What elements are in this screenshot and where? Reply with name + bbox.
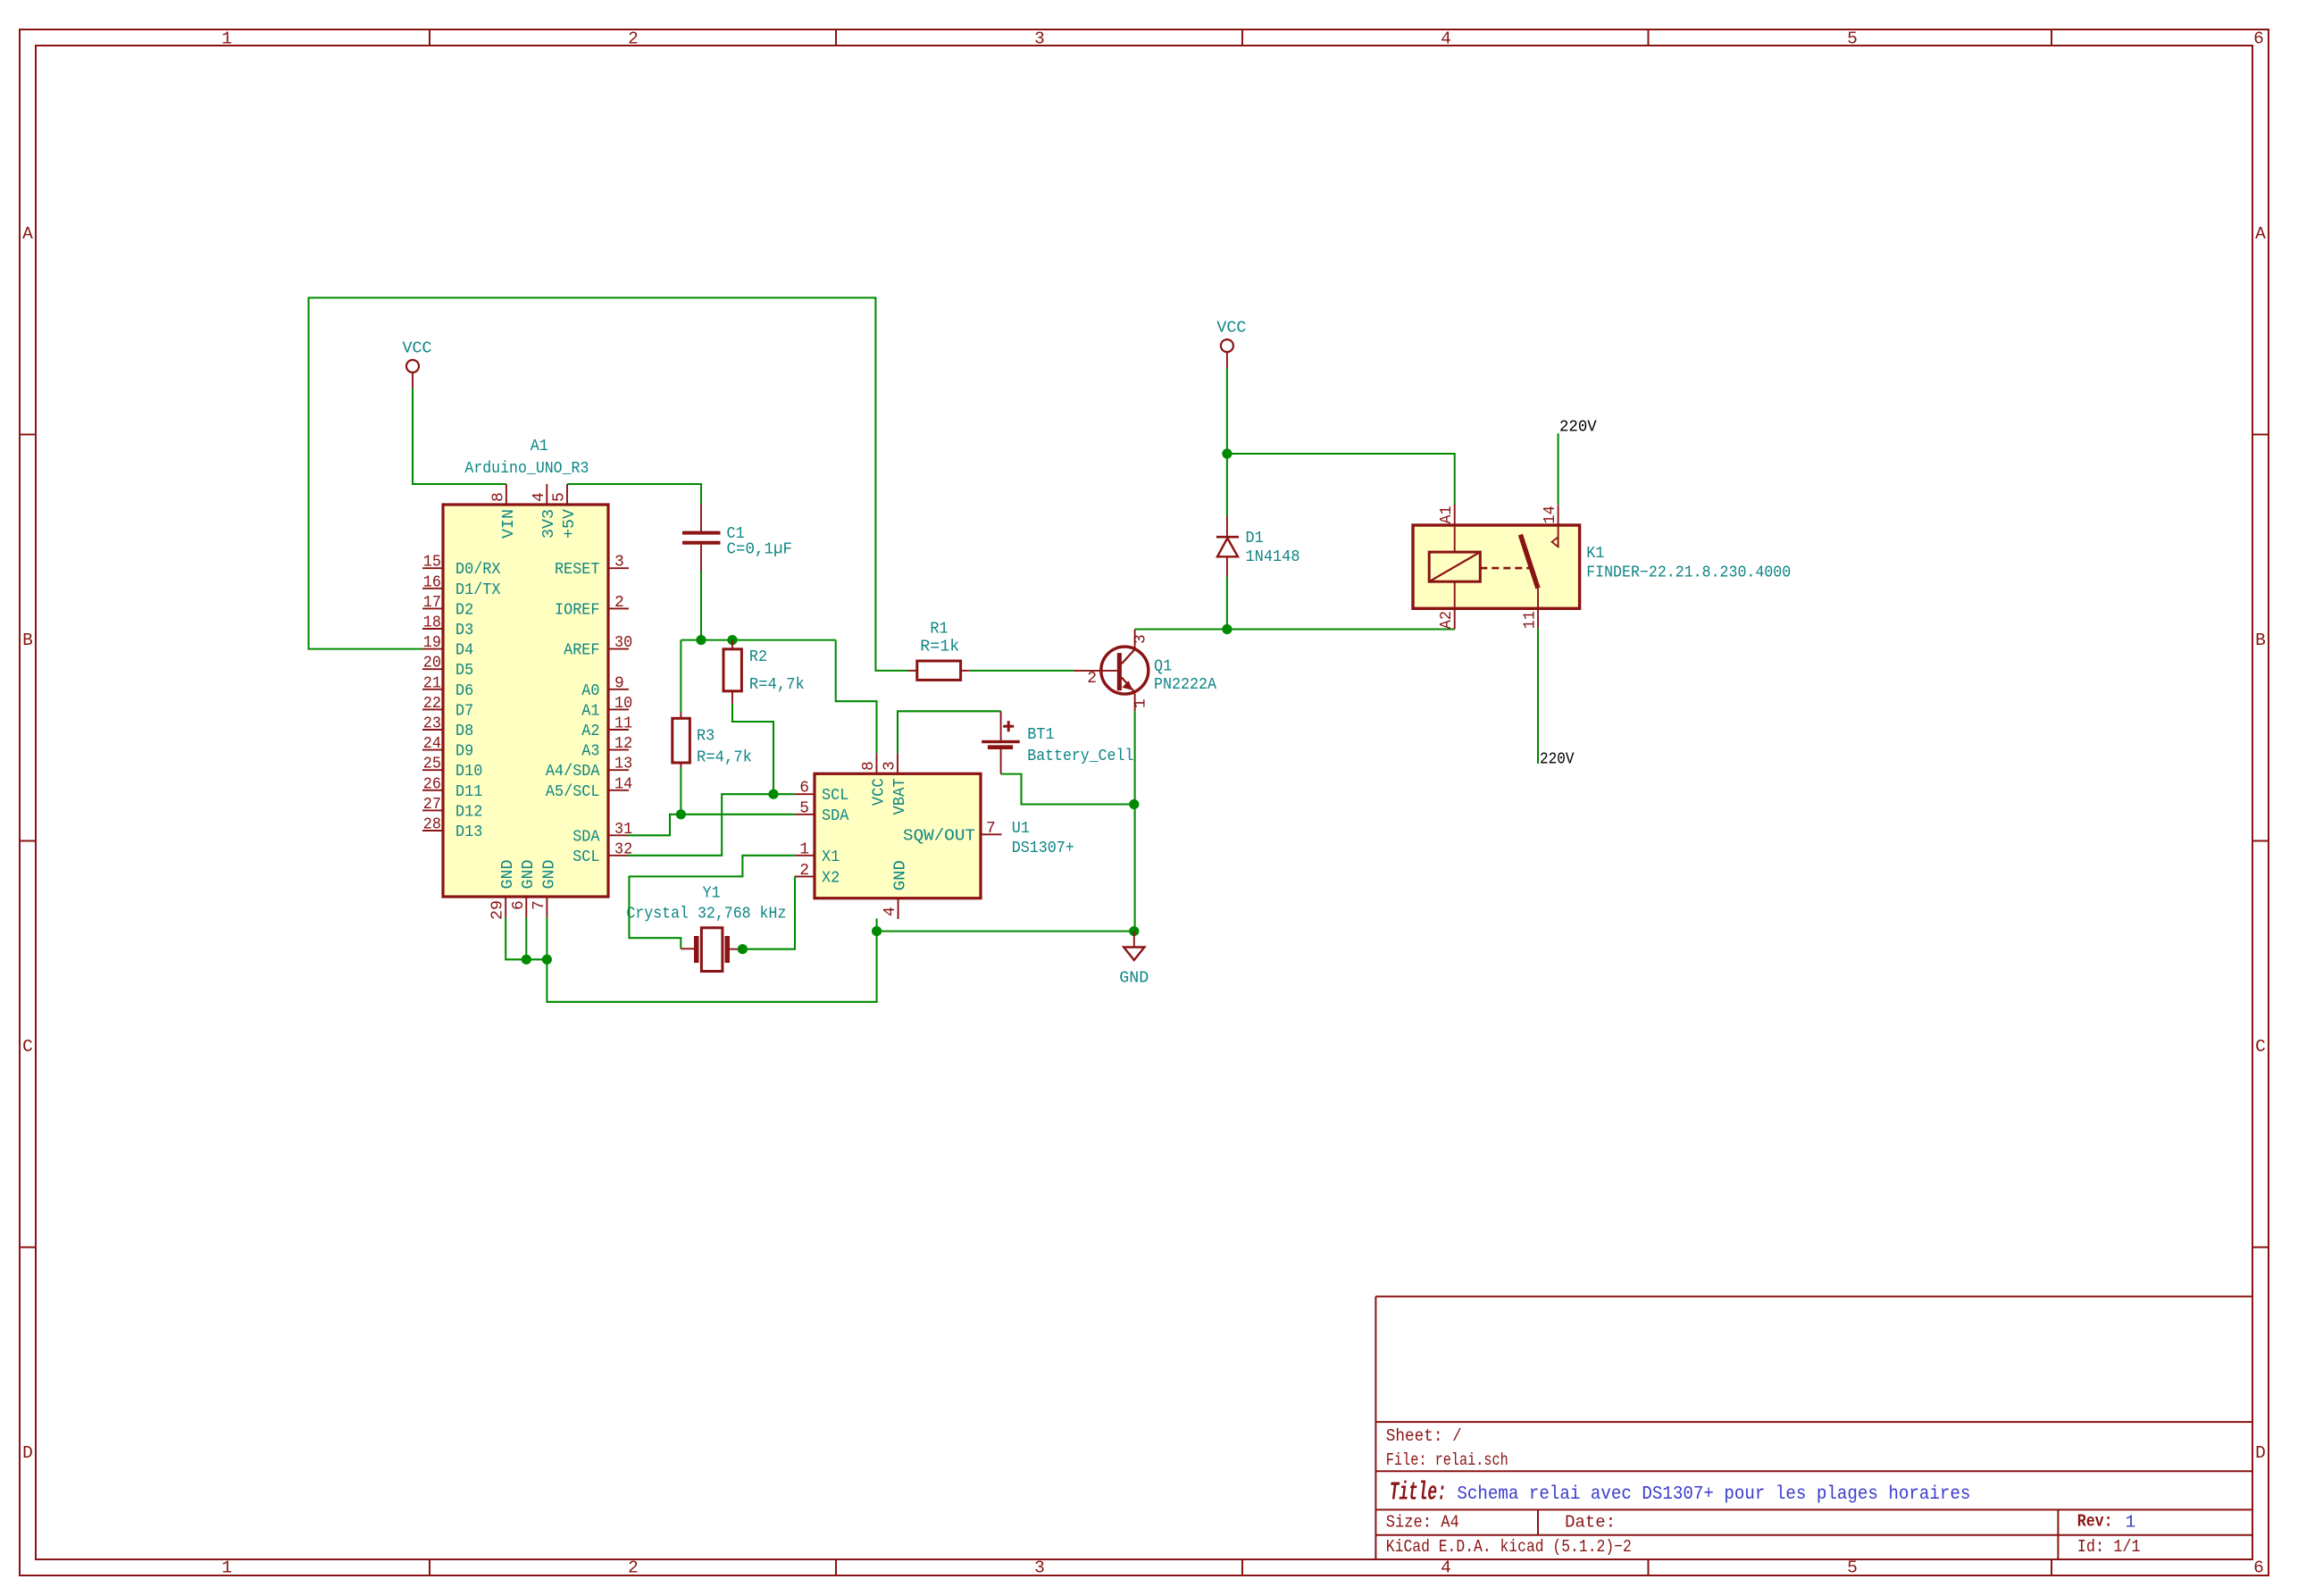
resistor R1 bbox=[908, 621, 970, 681]
wire junction row to R3 bbox=[680, 640, 681, 712]
wire U1 X2 to crystal right bbox=[742, 876, 795, 948]
svg-text:30: 30 bbox=[614, 634, 632, 652]
title block bbox=[1375, 1297, 2252, 1559]
junction SCL node bbox=[768, 790, 778, 799]
svg-text:18: 18 bbox=[423, 614, 441, 632]
svg-text:K1: K1 bbox=[1586, 545, 1604, 563]
relay K1 dashed actuator link bbox=[1480, 567, 1529, 570]
svg-text:D3: D3 bbox=[455, 622, 473, 639]
svg-text:2: 2 bbox=[1087, 670, 1097, 688]
junction C1 row bbox=[696, 635, 706, 645]
svg-text:14: 14 bbox=[614, 775, 632, 793]
svg-text:GND: GND bbox=[520, 860, 538, 890]
arduino A1 reference labels bbox=[464, 438, 589, 478]
svg-text:VCC: VCC bbox=[1216, 320, 1246, 338]
svg-text:R1: R1 bbox=[930, 621, 948, 639]
wire D1 to collector row bbox=[1226, 577, 1228, 630]
arduino right pins bbox=[546, 554, 632, 866]
svg-text:4: 4 bbox=[882, 907, 899, 916]
svg-text:D11: D11 bbox=[455, 783, 482, 801]
arduino bottom pins GND x3 bbox=[489, 860, 559, 921]
svg-text:8: 8 bbox=[860, 761, 878, 771]
svg-text:5: 5 bbox=[1847, 29, 1858, 49]
svg-text:VBAT: VBAT bbox=[891, 778, 909, 815]
svg-text:X2: X2 bbox=[822, 869, 840, 887]
wire C1 to pullup junction row bbox=[700, 571, 702, 640]
svg-text:R3: R3 bbox=[697, 728, 714, 746]
svg-text:6: 6 bbox=[510, 900, 528, 910]
svg-text:Crystal 32,768 kHz: Crystal 32,768 kHz bbox=[626, 906, 786, 923]
svg-text:4: 4 bbox=[531, 492, 548, 502]
svg-text:5: 5 bbox=[799, 799, 809, 817]
svg-text:220V: 220V bbox=[1540, 751, 1575, 769]
svg-text:3: 3 bbox=[1132, 634, 1150, 644]
svg-text:D9: D9 bbox=[455, 743, 473, 761]
svg-text:17: 17 bbox=[423, 594, 441, 612]
junction U1 GND node bbox=[872, 926, 882, 936]
svg-text:B: B bbox=[2255, 631, 2266, 650]
svg-text:D2: D2 bbox=[455, 601, 473, 619]
svg-text:GND: GND bbox=[540, 860, 558, 890]
IC U1 DS1307 body bbox=[815, 773, 981, 898]
svg-text:D5: D5 bbox=[455, 662, 473, 680]
svg-text:9: 9 bbox=[614, 674, 624, 692]
svg-text:C=0,1µF: C=0,1µF bbox=[727, 540, 793, 558]
svg-text:R=4,7k: R=4,7k bbox=[697, 749, 752, 767]
svg-text:Id: 1/1: Id: 1/1 bbox=[2077, 1537, 2141, 1557]
svg-text:File: relai.sch: File: relai.sch bbox=[1386, 1450, 1508, 1470]
svg-text:7: 7 bbox=[986, 820, 996, 838]
wire pullup junction row bbox=[681, 639, 835, 641]
svg-text:A2: A2 bbox=[1438, 611, 1456, 629]
svg-text:220V: 220V bbox=[1559, 418, 1597, 436]
wire R2 to SCL bbox=[732, 704, 773, 794]
svg-text:13: 13 bbox=[614, 756, 632, 773]
svg-text:1: 1 bbox=[221, 29, 232, 49]
svg-text:GND: GND bbox=[892, 860, 910, 890]
svg-text:D12: D12 bbox=[455, 803, 482, 821]
svg-text:SQW/OUT: SQW/OUT bbox=[903, 827, 975, 845]
junction crystal node bbox=[738, 944, 748, 954]
svg-text:Date:: Date: bbox=[1565, 1513, 1616, 1533]
svg-text:D0/RX: D0/RX bbox=[455, 561, 501, 579]
junction SDA node bbox=[676, 809, 686, 819]
svg-text:1N4148: 1N4148 bbox=[1246, 548, 1300, 566]
svg-text:R=1k: R=1k bbox=[920, 639, 959, 656]
svg-text:D: D bbox=[22, 1443, 33, 1463]
wire GND bus to U1 area bbox=[547, 919, 876, 1002]
wire +5V to C1 and AREF net bbox=[567, 484, 701, 505]
junction R2 row bbox=[727, 635, 737, 645]
svg-text:Arduino_UNO_R3: Arduino_UNO_R3 bbox=[464, 460, 589, 478]
svg-text:1: 1 bbox=[1132, 698, 1150, 708]
svg-text:21: 21 bbox=[423, 674, 441, 692]
U1 right pin SQW/OUT bbox=[903, 820, 1002, 846]
U1 top pins VCC VBAT bbox=[860, 754, 909, 815]
relay K1 reference labels bbox=[1586, 545, 1791, 581]
arduino top pins VIN 3V3 +5V bbox=[489, 484, 579, 539]
svg-text:A0: A0 bbox=[581, 682, 599, 700]
svg-text:1: 1 bbox=[2126, 1513, 2136, 1533]
svg-text:11: 11 bbox=[1522, 611, 1540, 629]
svg-text:6: 6 bbox=[2253, 1558, 2264, 1578]
wire VCC to D1/relay junction bbox=[1226, 368, 1228, 454]
svg-text:DS1307+: DS1307+ bbox=[1012, 840, 1074, 857]
svg-text:A1: A1 bbox=[531, 438, 548, 455]
svg-text:D7: D7 bbox=[455, 702, 473, 720]
svg-text:7: 7 bbox=[531, 900, 548, 910]
junction D1 collector node bbox=[1222, 624, 1232, 634]
diode D1 1N4148 bbox=[1216, 516, 1300, 577]
resistor R2 bbox=[723, 640, 805, 704]
wire VCC junction to relay A1 bbox=[1227, 454, 1455, 505]
svg-text:28: 28 bbox=[423, 816, 441, 834]
wire arduino SCL to DS1307 bbox=[627, 794, 795, 856]
svg-text:SDA: SDA bbox=[572, 828, 599, 846]
svg-text:11: 11 bbox=[614, 715, 632, 733]
wire VCC to VIN bbox=[413, 389, 506, 484]
svg-text:R2: R2 bbox=[749, 648, 767, 666]
wire 220V to relay pin 14 bbox=[1558, 433, 1559, 505]
wire VCC junction row to U1 VCC pin bbox=[836, 640, 877, 754]
svg-text:D13: D13 bbox=[455, 823, 482, 841]
svg-text:Sheet: /: Sheet: / bbox=[1386, 1426, 1462, 1446]
svg-text:KiCad E.D.A. kicad (5.1.2)−2: KiCad E.D.A. kicad (5.1.2)−2 bbox=[1386, 1537, 1632, 1557]
svg-text:U1: U1 bbox=[1012, 820, 1030, 838]
svg-text:20: 20 bbox=[423, 655, 441, 673]
svg-text:6: 6 bbox=[2253, 29, 2264, 49]
svg-text:GND: GND bbox=[1119, 970, 1149, 988]
svg-text:D4: D4 bbox=[455, 642, 473, 660]
U1 bottom pin GND bbox=[882, 860, 909, 919]
svg-text:PN2222A: PN2222A bbox=[1154, 676, 1216, 694]
svg-text:3: 3 bbox=[614, 554, 624, 572]
svg-text:2: 2 bbox=[628, 29, 639, 49]
wire collector row Q1 to relay A2 bbox=[1135, 628, 1455, 630]
svg-text:A3: A3 bbox=[581, 743, 599, 761]
U1 reference labels bbox=[1012, 820, 1074, 857]
svg-text:X1: X1 bbox=[822, 848, 840, 866]
svg-text:25: 25 bbox=[423, 756, 441, 773]
svg-text:8: 8 bbox=[489, 492, 507, 502]
svg-text:VCC: VCC bbox=[870, 778, 888, 806]
svg-text:6: 6 bbox=[799, 780, 809, 798]
svg-text:A2: A2 bbox=[581, 723, 599, 740]
svg-text:Title:: Title: bbox=[1390, 1478, 1447, 1508]
wire R1 to Q1 base bbox=[970, 670, 1074, 672]
wire Q1 emitter to GND bbox=[1134, 711, 1136, 932]
wire D4 to R1 loop bbox=[309, 297, 909, 671]
svg-text:GND: GND bbox=[499, 860, 517, 890]
svg-text:IOREF: IOREF bbox=[555, 601, 600, 619]
svg-text:C: C bbox=[22, 1037, 33, 1057]
svg-text:15: 15 bbox=[423, 554, 441, 572]
svg-text:3V3: 3V3 bbox=[540, 509, 558, 539]
transistor Q1 PN2222A bbox=[1074, 630, 1216, 712]
arduino left pins D0-D13 bbox=[422, 554, 501, 841]
relay K1 body bbox=[1413, 525, 1580, 608]
svg-text:D8: D8 bbox=[455, 723, 473, 740]
svg-text:VIN: VIN bbox=[500, 509, 518, 539]
svg-text:24: 24 bbox=[423, 735, 441, 753]
svg-text:FINDER−22.21.8.230.4000: FINDER−22.21.8.230.4000 bbox=[1586, 564, 1791, 582]
svg-text:23: 23 bbox=[423, 715, 441, 733]
svg-text:1: 1 bbox=[799, 840, 809, 858]
wire VCC junction to D1 bbox=[1226, 454, 1228, 516]
svg-text:D6: D6 bbox=[455, 682, 473, 700]
svg-text:Schema relai avec DS1307+ pour: Schema relai avec DS1307+ pour les plage… bbox=[1457, 1483, 1970, 1505]
svg-text:Y1: Y1 bbox=[703, 885, 721, 903]
svg-text:SDA: SDA bbox=[822, 807, 848, 825]
wire relay pin 11 to 220V bottom bbox=[1537, 629, 1539, 764]
svg-text:26: 26 bbox=[423, 775, 441, 793]
svg-text:1: 1 bbox=[221, 1558, 232, 1578]
svg-text:29: 29 bbox=[489, 900, 507, 920]
svg-text:RESET: RESET bbox=[555, 561, 600, 579]
junction GND symbol node bbox=[1129, 926, 1139, 936]
svg-text:19: 19 bbox=[423, 634, 441, 652]
frame row labels bbox=[22, 224, 2266, 1463]
svg-text:Rev:: Rev: bbox=[2077, 1512, 2113, 1532]
wire U1 VBAT to battery BT1 bbox=[898, 711, 1001, 753]
svg-text:3: 3 bbox=[1034, 29, 1045, 49]
svg-text:12: 12 bbox=[614, 735, 632, 753]
svg-text:BT1: BT1 bbox=[1027, 726, 1054, 744]
arduino A1 body bbox=[443, 505, 608, 897]
svg-text:A5/SCL: A5/SCL bbox=[546, 783, 600, 801]
junction battery GND node bbox=[1129, 799, 1139, 809]
svg-text:A: A bbox=[2255, 224, 2266, 244]
svg-text:27: 27 bbox=[423, 796, 441, 814]
svg-text:VCC: VCC bbox=[403, 340, 432, 358]
wire arduino SDA to DS1307 bbox=[627, 815, 795, 836]
svg-text:3: 3 bbox=[1034, 1558, 1045, 1578]
svg-text:D: D bbox=[2255, 1443, 2266, 1463]
svg-text:Battery_Cell: Battery_Cell bbox=[1027, 748, 1133, 765]
svg-text:5: 5 bbox=[1847, 1558, 1858, 1578]
wire U1 X1 to crystal left bbox=[629, 856, 794, 949]
svg-text:2: 2 bbox=[799, 862, 809, 880]
capacitor C1 bbox=[682, 505, 792, 571]
svg-text:D1: D1 bbox=[1246, 530, 1264, 547]
wire GND row to GND symbol bbox=[877, 931, 1134, 932]
svg-text:C: C bbox=[2255, 1037, 2266, 1057]
wire battery negative to GND net bbox=[1001, 774, 1134, 805]
power symbol VCC (left) bbox=[403, 340, 432, 389]
U1 left pins SCL SDA X1 X2 bbox=[795, 780, 849, 888]
svg-text:5: 5 bbox=[551, 492, 569, 502]
ground symbol GND bbox=[1119, 932, 1149, 988]
relay K1 coil bbox=[1429, 505, 1480, 630]
crystal Y1 bbox=[681, 928, 742, 972]
svg-text:4: 4 bbox=[1441, 1558, 1451, 1578]
svg-text:3: 3 bbox=[882, 761, 899, 771]
crystal Y1 reference labels bbox=[626, 885, 786, 923]
svg-text:2: 2 bbox=[628, 1558, 639, 1578]
wire arduino GND pins to bus bbox=[506, 918, 547, 960]
svg-text:D10: D10 bbox=[455, 763, 482, 781]
power symbol VCC (right) bbox=[1216, 320, 1246, 368]
svg-text:10: 10 bbox=[614, 695, 632, 713]
svg-text:Q1: Q1 bbox=[1154, 658, 1172, 676]
svg-text:22: 22 bbox=[423, 695, 441, 713]
junction VCC D1 node bbox=[1222, 448, 1232, 458]
svg-text:16: 16 bbox=[423, 573, 441, 591]
svg-text:SCL: SCL bbox=[822, 787, 848, 805]
battery BT1 bbox=[982, 711, 1133, 773]
junction GND pin7 node bbox=[542, 955, 552, 965]
svg-text:B: B bbox=[22, 631, 33, 650]
svg-text:A4/SDA: A4/SDA bbox=[546, 763, 600, 781]
svg-text:A1: A1 bbox=[1438, 506, 1456, 523]
svg-text:D1/TX: D1/TX bbox=[455, 581, 501, 599]
svg-text:14: 14 bbox=[1542, 506, 1559, 523]
svg-text:A1: A1 bbox=[581, 702, 599, 720]
svg-text:2: 2 bbox=[614, 594, 624, 612]
svg-text:4: 4 bbox=[1441, 29, 1451, 49]
resistor R3 bbox=[673, 712, 752, 767]
svg-text:R=4,7k: R=4,7k bbox=[749, 676, 805, 694]
svg-text:SCL: SCL bbox=[572, 848, 599, 866]
wire R3 to SDA bbox=[680, 767, 681, 815]
junction GND pin6 node bbox=[522, 955, 531, 965]
svg-text:Size: A4: Size: A4 bbox=[1386, 1513, 1459, 1533]
relay K1 switch blade bbox=[1520, 505, 1559, 629]
svg-text:AREF: AREF bbox=[564, 642, 599, 660]
svg-text:A: A bbox=[22, 224, 33, 244]
svg-text:+5V: +5V bbox=[561, 509, 579, 539]
